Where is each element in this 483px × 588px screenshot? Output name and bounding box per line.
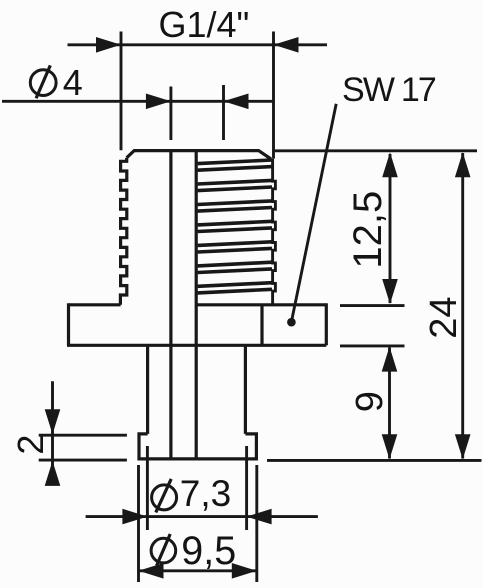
extension line 2 top bbox=[39, 434, 127, 437]
arrow 12,5 top bbox=[382, 152, 398, 177]
svg-text:24: 24 bbox=[423, 297, 465, 339]
flange top edge right bbox=[196, 303, 326, 306]
dimension line D9,5 bbox=[139, 569, 257, 572]
svg-text:4: 4 bbox=[63, 62, 83, 103]
arrow 9 bottom bbox=[382, 434, 398, 459]
stem left edge bbox=[146, 345, 149, 434]
flange right edge bbox=[325, 303, 328, 345]
extension line 2 bottom bbox=[39, 459, 127, 462]
dimension line 24 bbox=[461, 153, 464, 459]
arrow D7,3 left bbox=[122, 509, 147, 525]
thread flank lines bbox=[198, 160, 272, 293]
arrow 12,5 bottom bbox=[382, 279, 398, 304]
leader line SW17 bbox=[291, 104, 336, 322]
arrow 9 top bbox=[382, 347, 398, 372]
label D7,3 diameter symbol bbox=[152, 485, 177, 510]
dimension line D4 bbox=[2, 100, 274, 103]
body top edge with chamfers bbox=[127, 151, 271, 159]
dimension line 9 bbox=[388, 348, 391, 459]
flange top extension line bbox=[340, 304, 405, 307]
extension line D7,3 left bbox=[146, 446, 149, 530]
arrow D4 left bbox=[146, 94, 171, 110]
dimension line 12,5 bbox=[389, 154, 392, 303]
centerline bbox=[195, 151, 198, 459]
svg-text:7,3: 7,3 bbox=[180, 473, 231, 514]
flange bottom edge bbox=[67, 344, 326, 347]
stem right edge bbox=[244, 345, 247, 434]
label D9,5 diameter symbol bbox=[151, 538, 176, 563]
flange top edge left bbox=[69, 303, 121, 306]
flange bottom extension line bbox=[340, 344, 405, 347]
arrow G1/4 right bbox=[274, 37, 299, 53]
arrow G1/4 left bbox=[96, 37, 121, 53]
leader dot bbox=[287, 318, 296, 327]
svg-text:9: 9 bbox=[349, 391, 391, 412]
svg-text:9,5: 9,5 bbox=[181, 529, 236, 573]
extension line D9,5 right bbox=[255, 465, 258, 582]
extension line D9,5 left bbox=[137, 465, 140, 582]
flange divider (hex corner line) bbox=[260, 305, 263, 346]
svg-text:12,5: 12,5 bbox=[346, 191, 390, 269]
extension line D4 right bbox=[222, 85, 225, 140]
svg-text:2: 2 bbox=[10, 435, 51, 455]
extension line G1/4 right bbox=[272, 32, 275, 159]
extension line G1/4 left bbox=[120, 32, 123, 151]
arrow D7,3 right bbox=[247, 509, 272, 525]
dimension line G1/4 bbox=[68, 43, 328, 46]
arrow 24 top bbox=[455, 152, 471, 177]
arrow 2 bottom bbox=[45, 461, 61, 486]
label D4 diameter symbol bbox=[30, 70, 56, 96]
bore wall line bbox=[169, 151, 172, 459]
arrow D9,5 left bbox=[139, 563, 164, 579]
extension line D4 left bbox=[169, 87, 172, 141]
arrow 24 bottom bbox=[455, 434, 471, 459]
dimension line D7,3 bbox=[86, 515, 318, 518]
top extension line (body top) bbox=[275, 149, 477, 152]
arrow 2 top bbox=[45, 409, 61, 434]
bottom extension line bbox=[267, 459, 482, 462]
extension line D7,3 right bbox=[245, 446, 248, 530]
arrow D9,5 right bbox=[232, 563, 257, 579]
knurl profile (left serrated edge) bbox=[120, 158, 126, 305]
thread crest edge (castellated) bbox=[273, 159, 276, 305]
svg-text:SW 17: SW 17 bbox=[342, 71, 436, 109]
svg-text:G1/4": G1/4" bbox=[159, 4, 250, 45]
arrow D4 right bbox=[224, 94, 249, 110]
dimension line 2 bbox=[51, 381, 54, 480]
flange left edge bbox=[67, 303, 70, 345]
barb outline bbox=[139, 434, 256, 459]
